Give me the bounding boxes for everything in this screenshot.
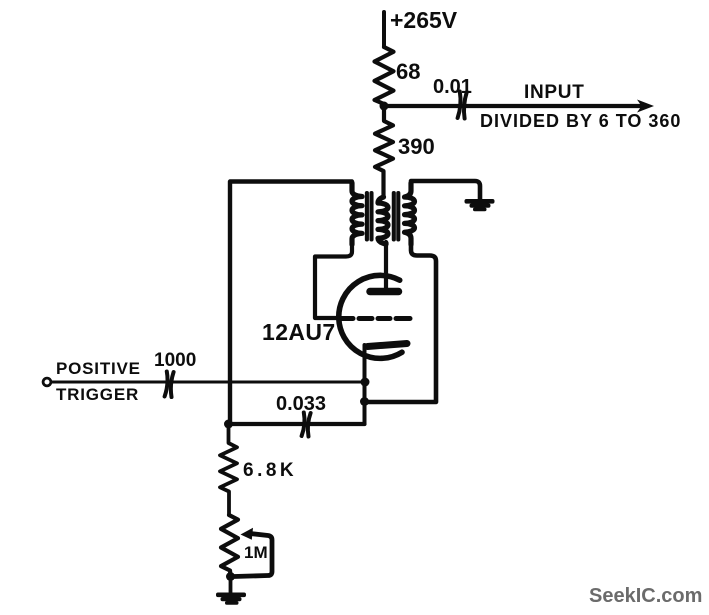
resistor R 68 — [375, 47, 394, 104]
wire: wiper loop — [234, 534, 272, 577]
wire: +265V supply lead — [382, 12, 386, 47]
node: junction of 68, 390 and output — [380, 102, 389, 111]
svg-text:SeekIC.com: SeekIC.com — [589, 585, 702, 607]
wire: output line to the right — [384, 104, 644, 108]
svg-text:0.01: 0.01 — [433, 76, 472, 98]
potentiometer wiper arrow — [241, 528, 254, 540]
capacitor C 1000 — [165, 372, 174, 398]
wire: trigger line — [51, 381, 365, 384]
svg-text:1000: 1000 — [154, 350, 196, 371]
potentiometer R 1M — [221, 515, 238, 576]
svg-text:DIVIDED BY 6 TO 360: DIVIDED BY 6 TO 360 — [480, 111, 681, 131]
node: right rail junction — [360, 397, 369, 406]
svg-text:1M: 1M — [244, 543, 268, 562]
wire: right winding top lead to ground — [411, 181, 480, 200]
capacitor C 0.01 — [458, 92, 467, 119]
tube grid (dashed) — [340, 316, 410, 321]
svg-text:68: 68 — [396, 59, 420, 84]
transformer T1 right winding — [405, 183, 415, 245]
node: trigger/cathode junction — [361, 378, 370, 387]
svg-text:INPUT: INPUT — [524, 82, 585, 103]
wire: left winding top lead to left rail — [230, 182, 352, 425]
node: 6.8K junction — [224, 420, 233, 429]
svg-text:+265V: +265V — [390, 7, 458, 33]
tube cathode bar — [368, 344, 408, 347]
svg-text:12AU7: 12AU7 — [262, 319, 336, 345]
tube 12AU7 envelope — [339, 275, 402, 358]
svg-text:TRIGGER: TRIGGER — [56, 385, 139, 404]
svg-text:0.033: 0.033 — [276, 393, 326, 415]
ground symbol (top right) — [465, 199, 495, 211]
resistor R 6.8K — [220, 424, 237, 515]
transformer T1 left secondary winding — [352, 183, 362, 245]
wire: cathode lead down — [363, 345, 367, 424]
arrowhead output — [637, 100, 654, 113]
wire: ground stem (bottom) — [229, 577, 233, 594]
svg-text:6.8K: 6.8K — [243, 460, 297, 481]
wire: 0.033 coupling line — [229, 422, 365, 426]
wire: left winding bottom lead to grid box — [315, 244, 352, 318]
resistor R 390 — [375, 106, 393, 197]
tube plate bar — [370, 288, 399, 296]
svg-text:POSITIVE: POSITIVE — [56, 359, 141, 378]
capacitor C 0.033 — [302, 413, 311, 437]
node: pot bottom junction — [226, 572, 235, 581]
transformer T1 primary (center winding) — [378, 197, 388, 244]
trigger input terminal — [43, 378, 51, 386]
transformer T1 core lines — [367, 193, 398, 240]
ground symbol (bottom) — [216, 593, 246, 605]
wire: right winding bottom lead / right rail — [365, 244, 436, 402]
wire: plate lead from transformer — [384, 242, 388, 290]
svg-text:390: 390 — [398, 134, 435, 159]
